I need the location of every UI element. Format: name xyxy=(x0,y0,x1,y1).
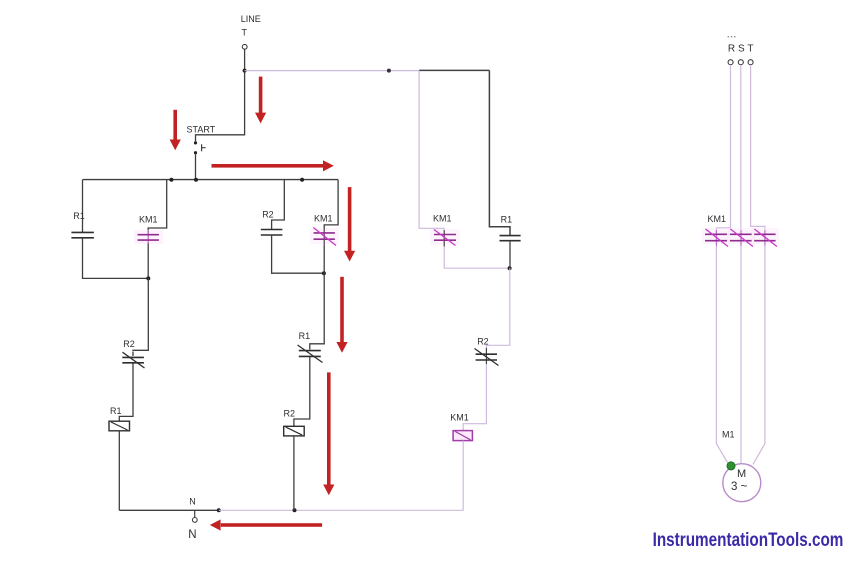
terminal R xyxy=(728,60,733,65)
wire KM1 contact to join (lavender) xyxy=(444,247,509,269)
wire KM1 coil to N bus (lavender) xyxy=(462,441,464,511)
junction on top lavender wire xyxy=(387,69,391,73)
coil R2 xyxy=(284,409,305,436)
svg-text:T: T xyxy=(747,44,753,55)
contact R1 (NO, branch 1) xyxy=(71,211,94,238)
wire R2 contact down to join xyxy=(272,235,324,273)
svg-text:KM1: KM1 xyxy=(708,214,727,224)
wire LINE to START xyxy=(196,71,245,142)
contact R2 (NC, right) xyxy=(475,337,499,366)
contact R1 (NO, right) xyxy=(500,214,521,240)
contact KM1 (NC, right control) xyxy=(430,214,460,247)
wire KM1 contact to join xyxy=(323,245,325,273)
svg-text:N: N xyxy=(188,529,196,541)
contact KM1 (NC, branch 4) xyxy=(310,213,339,245)
indicator green dot xyxy=(727,462,735,470)
svg-text:R1: R1 xyxy=(73,211,85,221)
svg-text:KM1: KM1 xyxy=(433,214,452,224)
junction bus 1 xyxy=(169,178,173,182)
wire bus to KM1 contact (branch 2) xyxy=(148,180,167,234)
wire R1 contact to join xyxy=(83,238,149,279)
svg-text:InstrumentationTools.com: InstrumentationTools.com xyxy=(653,529,844,551)
contact KM1 pole 3 xyxy=(751,228,779,247)
svg-text:LINE: LINE xyxy=(241,14,261,24)
svg-text:START: START xyxy=(187,124,216,134)
junction LINE branch xyxy=(243,69,247,73)
wire bus end to KM1 contact (branch 4) xyxy=(324,180,338,228)
svg-text:R2: R2 xyxy=(477,337,489,347)
power feed dots xyxy=(728,36,736,37)
wire top black to R1 branch xyxy=(419,69,489,71)
wire R1 contact to join xyxy=(509,241,511,269)
svg-text:R2: R2 xyxy=(262,209,274,219)
terminal N xyxy=(188,497,197,542)
svg-text:R: R xyxy=(728,44,735,55)
wire phase S xyxy=(740,65,742,230)
junction branch3/4 xyxy=(322,271,326,275)
terminal T xyxy=(748,60,753,65)
svg-text:T: T xyxy=(242,28,248,38)
motor M1 xyxy=(723,464,761,502)
svg-text:KM1: KM1 xyxy=(139,214,158,224)
wire black down to R1 contact (right) xyxy=(489,70,510,235)
wire R2 contact to R1 coil xyxy=(119,369,133,422)
terminal LINE xyxy=(242,44,247,49)
contact KM1 pole 1 xyxy=(702,228,730,247)
junction bus 2 xyxy=(194,178,198,182)
junction N bus xyxy=(217,508,221,512)
contact R1 (NC, middle) xyxy=(298,331,323,362)
svg-text:R1: R1 xyxy=(110,406,122,416)
bus wire xyxy=(83,179,339,181)
junction bus 3 xyxy=(300,178,304,182)
contact R2 (NC, left lower) xyxy=(122,339,144,369)
flow arrow 7 (left, bottom) xyxy=(210,519,322,530)
wire START to bus xyxy=(195,154,197,179)
junction right pair xyxy=(508,266,512,270)
wire bus to R2 contact (branch 3) xyxy=(272,180,285,230)
svg-text:R2: R2 xyxy=(284,409,296,419)
contact KM1 (branch 2, closed) xyxy=(134,214,163,244)
wire top lavender to right branch xyxy=(245,70,420,72)
wire R1 coil to N bus xyxy=(118,431,120,511)
svg-text:KM1: KM1 xyxy=(314,213,333,223)
svg-text:KM1: KM1 xyxy=(450,412,469,422)
terminal S xyxy=(738,60,743,65)
svg-text:3 ~: 3 ~ xyxy=(731,481,748,493)
flow arrow 5 (down, middle) xyxy=(336,277,347,353)
svg-text:N: N xyxy=(189,497,196,507)
node R S T labels xyxy=(728,44,754,55)
wire bus to R1 contact xyxy=(82,180,84,232)
wire N bus dark xyxy=(119,509,219,511)
wire R2 coil to N bus xyxy=(293,436,295,510)
flow arrow 4 (down, right of KM1 branch) xyxy=(344,187,355,261)
wire pole2 to motor xyxy=(740,246,742,464)
wire pole1 to motor xyxy=(716,246,728,464)
junction branch1/2 xyxy=(146,276,150,280)
pushbutton START xyxy=(187,124,216,154)
coil R1 xyxy=(109,406,130,431)
node LINE label xyxy=(241,14,261,38)
svg-text:M1: M1 xyxy=(722,429,735,439)
flow arrow 2 (down, left of START) xyxy=(170,110,181,151)
contact R2 (NO, branch 3) xyxy=(261,209,283,235)
flow arrow 1 (down, right of LINE) xyxy=(255,77,266,124)
flow arrow 3 (right, below START) xyxy=(212,160,334,171)
junction R2 coil at N bus xyxy=(293,508,297,512)
wire phase T xyxy=(751,65,765,230)
wire R1 contact to R2 coil xyxy=(294,362,310,427)
coil KM1 xyxy=(450,412,472,440)
svg-text:S: S xyxy=(738,44,745,55)
svg-text:R1: R1 xyxy=(299,331,311,341)
svg-text:R2: R2 xyxy=(123,339,135,349)
wire LINE terminal down xyxy=(244,49,246,70)
wire lavender to KM1 contact (right) xyxy=(419,71,444,230)
contact KM1 pole 2 xyxy=(727,228,755,247)
wire pole3 to motor xyxy=(753,246,765,464)
wire KM1 contact to join xyxy=(147,244,149,279)
svg-text:M: M xyxy=(737,468,746,480)
wire join down to R1 contact (middle) xyxy=(310,273,324,345)
flow arrow 6 (down, long middle) xyxy=(323,372,334,495)
wire phase R xyxy=(716,65,730,230)
wire join down to R2 contact xyxy=(133,278,148,351)
wire N bus lavender xyxy=(219,509,464,511)
wire join down to R2 contact (right, lavender) xyxy=(486,268,509,348)
svg-text:R1: R1 xyxy=(501,214,513,224)
wire R2 contact to KM1 coil (lavender) xyxy=(463,364,486,431)
